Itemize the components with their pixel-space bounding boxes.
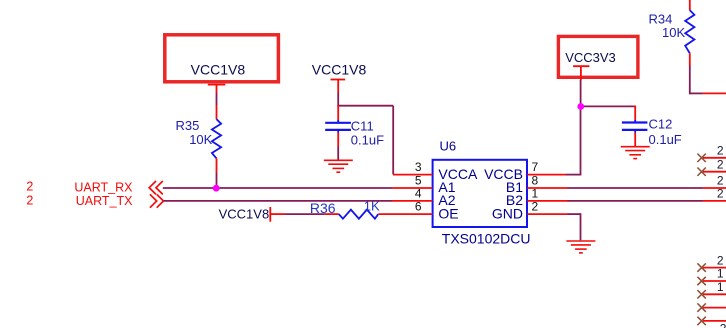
svg-text:UART_TX: UART_TX xyxy=(76,194,133,208)
no-ERC x row 9 xyxy=(697,317,705,325)
pin 6 OE xyxy=(378,200,458,222)
wire C11 to ground xyxy=(337,147,339,161)
svg-text:U6: U6 xyxy=(440,139,457,154)
capacitor C11 xyxy=(325,106,384,148)
svg-text:2: 2 xyxy=(717,187,724,201)
wire VCC3V3 to junction xyxy=(580,80,582,107)
resistor R36 xyxy=(310,199,380,219)
wire VCC1V8 to R36 xyxy=(285,213,324,215)
wire UART_TX xyxy=(164,200,393,202)
pin 8 B1 xyxy=(506,174,568,196)
op-amp U6 box xyxy=(433,139,531,247)
svg-text:4: 4 xyxy=(415,187,422,201)
no-ERC x row 6 xyxy=(697,277,705,285)
no-ERC x row 5 xyxy=(697,263,705,271)
edge pin stub row 6 xyxy=(703,267,726,281)
svg-text:2: 2 xyxy=(717,157,724,171)
wire R35 to UART_RX net xyxy=(216,173,218,189)
svg-text:3: 3 xyxy=(415,160,422,174)
pin 2 GND xyxy=(492,200,568,222)
wire R34 down and right xyxy=(690,66,703,95)
svg-text:6: 6 xyxy=(415,200,422,214)
svg-text:2: 2 xyxy=(26,180,33,194)
no-ERC x row 8 xyxy=(697,303,705,311)
pin 1 B2 xyxy=(506,187,568,209)
wire pin1 to edge xyxy=(568,200,703,202)
svg-text:1: 1 xyxy=(717,267,724,281)
no-ERC x row 1 xyxy=(697,154,705,162)
wire junction to C12 xyxy=(581,105,636,107)
svg-text:TXS0102DCU: TXS0102DCU xyxy=(442,231,531,247)
wire UART_RX xyxy=(163,187,392,189)
svg-text:C12: C12 xyxy=(649,117,673,132)
power port VCC1V8 (above C11) xyxy=(312,62,367,94)
svg-text:R35: R35 xyxy=(176,118,200,133)
svg-text:2: 2 xyxy=(26,193,33,207)
svg-text:OE: OE xyxy=(438,205,458,221)
svg-text:VCC1V8: VCC1V8 xyxy=(191,61,246,77)
svg-text:2: 2 xyxy=(532,200,539,214)
edge pin stub row 7 xyxy=(703,280,726,294)
svg-text:2: 2 xyxy=(720,322,726,328)
wire pin7 to VCC3V3 xyxy=(566,106,581,175)
svg-text:1: 1 xyxy=(532,187,539,201)
power port box VCC1V8 xyxy=(165,35,279,93)
wire VCC1V8 to R35 xyxy=(216,93,218,105)
svg-text:VCC3V3: VCC3V3 xyxy=(565,50,616,65)
pin 3 VCCA xyxy=(393,160,478,182)
svg-text:R36: R36 xyxy=(310,200,336,216)
power port VCC1V8 (bar style, to OE) xyxy=(219,207,286,222)
pin 4 A2 xyxy=(392,187,456,209)
svg-text:5: 5 xyxy=(415,174,422,188)
edge pin stub row 2 xyxy=(703,157,726,171)
svg-text:VCC1V8: VCC1V8 xyxy=(219,207,270,222)
wire node to VCCA (pin 3) xyxy=(338,106,393,175)
svg-text:VCC1V8: VCC1V8 xyxy=(312,62,367,78)
edge pin stub row 8 xyxy=(703,307,726,309)
svg-text:UART_RX: UART_RX xyxy=(74,180,133,194)
resistor R34 xyxy=(649,0,695,66)
resistor R35 xyxy=(176,105,222,173)
svg-text:GND: GND xyxy=(492,205,523,221)
edge pin stub row 5 xyxy=(703,253,726,267)
svg-text:10K: 10K xyxy=(662,25,685,40)
pin 7 VCCB xyxy=(484,160,566,182)
svg-text:7: 7 xyxy=(532,160,539,174)
pin stub R34 right edge xyxy=(703,92,726,94)
svg-text:8: 8 xyxy=(532,174,539,188)
port UART_TX chevron xyxy=(150,194,164,207)
svg-text:C11: C11 xyxy=(351,119,374,134)
edge pin stub row 9 xyxy=(703,320,726,322)
edge pin stub row 4 (B2 net) xyxy=(703,187,726,201)
ground (C12) xyxy=(621,147,650,159)
edge pin stub row 3 (B1 net) xyxy=(703,174,726,188)
junction on UART_RX wire xyxy=(213,185,220,192)
svg-text:1: 1 xyxy=(717,280,724,294)
ground (C11) xyxy=(324,160,353,172)
svg-text:10K: 10K xyxy=(189,132,212,147)
svg-text:2: 2 xyxy=(717,174,724,188)
wire pin2 to ground xyxy=(568,213,581,240)
svg-text:0.1uF: 0.1uF xyxy=(351,132,384,147)
svg-text:2: 2 xyxy=(717,144,724,158)
wire VCC1V8 down to node xyxy=(337,93,339,107)
port UART_RX chevron xyxy=(149,181,163,194)
no-ERC x row 2 xyxy=(697,168,705,176)
ground (U6 pin2) xyxy=(566,241,595,253)
wire pin8 to edge xyxy=(568,187,703,189)
junction VCC3V3 node xyxy=(577,103,584,110)
svg-text:2: 2 xyxy=(717,253,724,267)
edge pin stub row 1 xyxy=(703,144,726,158)
svg-text:1K: 1K xyxy=(364,199,380,214)
svg-text:0.1uF: 0.1uF xyxy=(649,132,682,147)
no-ERC x row 7 xyxy=(697,290,705,298)
power port box VCC3V3 xyxy=(558,36,638,80)
pin 5 A1 xyxy=(392,174,456,196)
capacitor C12 xyxy=(622,106,682,147)
